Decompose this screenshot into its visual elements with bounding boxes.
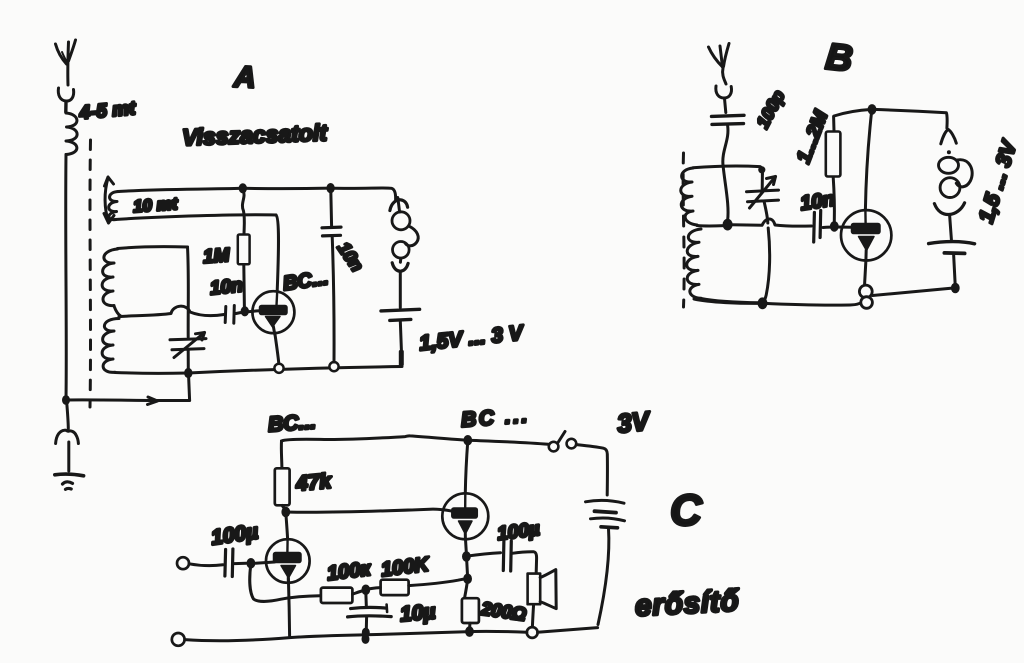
node battery B bbox=[951, 283, 960, 294]
top rail C bbox=[282, 436, 468, 441]
bottom rail B far right bbox=[873, 288, 951, 295]
transistor Q2 (B) BC bbox=[841, 210, 891, 260]
wire tap to 10n (with hop) bbox=[732, 219, 812, 226]
resistor 100k #1 bbox=[321, 588, 353, 603]
transistor Q1 (A) BC bbox=[252, 291, 294, 334]
node collector C2 bbox=[463, 435, 472, 446]
wire emitter B bbox=[865, 261, 866, 285]
earphone B bbox=[934, 129, 972, 214]
top rail A right bbox=[331, 188, 396, 200]
resistor 47k bbox=[275, 468, 290, 505]
wire varcap to rail bbox=[187, 350, 190, 372]
bottom rail B bbox=[694, 299, 760, 303]
antenna plug connector B bbox=[716, 86, 732, 98]
bottom rail B right bbox=[763, 301, 864, 306]
resistor 1..2M bbox=[826, 117, 841, 223]
wire input to cap bbox=[189, 564, 223, 566]
capacitor 10n shunt A bbox=[322, 190, 341, 362]
wire r2 to emitter node bbox=[409, 579, 467, 586]
ground mark 1 bbox=[63, 482, 73, 484]
node base A bbox=[241, 306, 249, 316]
wire speaker to rail bbox=[532, 605, 533, 627]
node 200ohm rail bbox=[465, 626, 474, 637]
svg-text:A: A bbox=[232, 60, 256, 94]
coil 10mt bbox=[109, 188, 276, 219]
wire bias down-right bbox=[250, 564, 320, 602]
node base B bbox=[830, 221, 839, 232]
wire squiggle to 1M bbox=[242, 190, 244, 234]
svg-text:B: B bbox=[824, 36, 855, 80]
resistor 100k #2 bbox=[381, 580, 409, 595]
svg-text:3V: 3V bbox=[616, 405, 653, 438]
ground stem bbox=[67, 442, 70, 471]
wire 200ohm to rail bbox=[468, 623, 471, 629]
top rail B bbox=[834, 109, 872, 116]
node bias bbox=[361, 585, 370, 596]
node bottom B bbox=[758, 297, 768, 309]
wire plug to cap bbox=[725, 99, 726, 113]
ground bar bbox=[55, 474, 84, 476]
wire tap to cap (with hop) bbox=[119, 306, 224, 316]
variable capacitor B bbox=[747, 174, 779, 303]
antenna plug connector A bbox=[58, 88, 73, 112]
wire node to r2 bbox=[366, 588, 381, 590]
wire collector C2 bbox=[465, 441, 468, 493]
capacitor 10n coupling A bbox=[225, 306, 234, 324]
svg-text:1M: 1M bbox=[202, 245, 231, 268]
top rail B right bbox=[872, 109, 947, 128]
input terminal 2 bbox=[172, 633, 185, 646]
node base C1 bbox=[247, 558, 256, 569]
svg-text:47k: 47k bbox=[294, 470, 333, 496]
top rail C to switch bbox=[468, 440, 549, 444]
node lower-left bbox=[62, 395, 70, 405]
svg-text:10 mt: 10 mt bbox=[132, 194, 179, 216]
wire node to 200ohm bbox=[465, 579, 468, 598]
speaker bbox=[528, 570, 557, 609]
node speaker ring bbox=[527, 627, 538, 638]
wire emitter A bbox=[275, 333, 279, 364]
switch C bbox=[549, 432, 576, 452]
antenna B bbox=[709, 44, 730, 85]
terminal blob A bbox=[399, 350, 404, 366]
resistor 200ohm bbox=[462, 598, 479, 623]
node coil bottom bbox=[184, 368, 192, 378]
capacitor 100u input bbox=[225, 549, 233, 577]
wire coil right side bbox=[186, 247, 190, 337]
node emitter C2 upper bbox=[462, 551, 471, 562]
wire base B bbox=[823, 226, 852, 229]
svg-text:10n: 10n bbox=[209, 275, 244, 299]
lower-left rail A bbox=[66, 398, 190, 402]
wire between nodes bbox=[467, 557, 468, 576]
wire collector drop A bbox=[276, 215, 279, 291]
node tap B bbox=[723, 219, 733, 231]
node collector C1 bbox=[281, 507, 290, 518]
node emitter rings B bbox=[859, 285, 872, 308]
wire 47k drop bbox=[280, 441, 284, 468]
node junction A2 bbox=[326, 183, 334, 193]
capacitor 10u bbox=[348, 594, 392, 629]
svg-text:Visszacsatolt: Visszacsatolt bbox=[182, 119, 329, 150]
wire coupling C1-C2 bbox=[286, 509, 453, 512]
coil B bbox=[681, 166, 763, 303]
battery A bbox=[381, 309, 420, 350]
arrow marker on rail bbox=[148, 397, 158, 405]
wire antenna down-lead bbox=[64, 155, 68, 400]
svg-text:C: C bbox=[670, 486, 703, 535]
feedback arrow (double-headed) bbox=[104, 177, 114, 223]
node rail under 10u bbox=[362, 628, 370, 644]
svg-text:BC ...: BC ... bbox=[460, 404, 530, 432]
node emitter ring A bbox=[274, 364, 283, 373]
variable capacitor A bbox=[170, 333, 206, 358]
wire emitter C1 bbox=[288, 579, 289, 636]
node emitter C2 lower bbox=[463, 574, 472, 585]
tuning coil A bbox=[102, 247, 188, 374]
wire base link bbox=[236, 311, 261, 314]
wire 1M to base node bbox=[242, 265, 246, 308]
resistor 1M bbox=[238, 235, 250, 265]
wire collector B bbox=[865, 110, 871, 210]
ground mark 2 bbox=[66, 487, 72, 491]
capacitor 10n B bbox=[814, 211, 821, 243]
input terminal 1 bbox=[177, 557, 189, 569]
wire emitter C2 bbox=[464, 539, 468, 552]
wire to ground plug bbox=[67, 400, 69, 429]
coil 4-5mt bbox=[66, 113, 77, 155]
node cap ring A bbox=[329, 362, 338, 371]
capacitor 100u output bbox=[467, 541, 537, 573]
wire 47k to node bbox=[282, 506, 285, 510]
wire cap to base node bbox=[235, 562, 247, 565]
wire cap to tap node bbox=[723, 125, 728, 221]
node coil-top / varcap bbox=[758, 166, 765, 173]
wire collector C1 bbox=[286, 513, 288, 540]
battery C bbox=[586, 500, 625, 527]
wire base C1 bbox=[255, 562, 274, 563]
bottom rail C right bbox=[538, 628, 598, 633]
node junction A1 bbox=[239, 183, 247, 193]
antenna A bbox=[56, 40, 76, 85]
top rail A bbox=[243, 187, 331, 191]
dashed coupling line B bbox=[683, 153, 684, 307]
ground plug arch bbox=[56, 430, 79, 443]
wire earphone to battery A bbox=[399, 272, 402, 308]
svg-text:BC...: BC... bbox=[267, 410, 316, 436]
dashed coupling line A bbox=[89, 140, 93, 407]
wire r1 to node bbox=[353, 590, 366, 594]
wire battery to rail C bbox=[598, 529, 609, 625]
bottom rail A bbox=[189, 367, 403, 374]
transistor Q4 (C2) BC bbox=[442, 493, 488, 539]
bottom rail C mid bbox=[474, 630, 527, 634]
wire switch to battery C bbox=[576, 445, 607, 495]
battery B bbox=[929, 242, 975, 285]
wire earphone to battery B bbox=[950, 215, 952, 240]
earphone A bbox=[390, 198, 418, 272]
node top B bbox=[868, 104, 877, 115]
svg-text:10µ: 10µ bbox=[399, 600, 436, 626]
capacitor 100p bbox=[712, 115, 745, 124]
svg-text:erősítő: erősítő bbox=[634, 584, 741, 622]
transistor Q3 (C1) BC bbox=[266, 539, 310, 583]
wire varcap node down bbox=[189, 374, 190, 401]
bottom rail C bbox=[185, 632, 466, 641]
